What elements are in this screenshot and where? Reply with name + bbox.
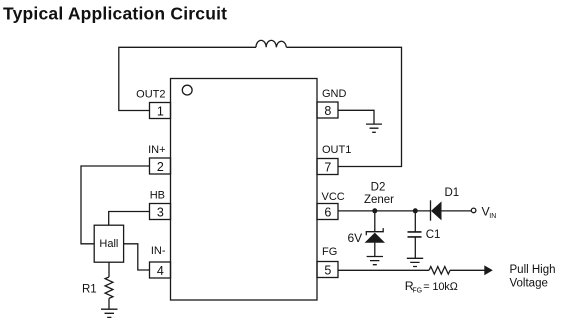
svg-text:HB: HB — [150, 190, 165, 202]
svg-text:FG: FG — [322, 246, 337, 258]
svg-text:OUT2: OUT2 — [136, 89, 165, 101]
svg-text:R1: R1 — [82, 283, 97, 295]
svg-text:2: 2 — [157, 160, 164, 174]
svg-text:1: 1 — [157, 104, 164, 118]
svg-text:Zener: Zener — [364, 194, 394, 206]
svg-text:5: 5 — [324, 263, 331, 277]
svg-text:Typical Application Circuit: Typical Application Circuit — [3, 4, 227, 24]
svg-text:4: 4 — [157, 264, 164, 278]
svg-text:C1: C1 — [426, 229, 441, 241]
svg-text:IN: IN — [489, 213, 496, 220]
svg-text:FG: FG — [412, 287, 422, 294]
svg-text:OUT1: OUT1 — [322, 144, 351, 156]
svg-text:Hall: Hall — [99, 238, 118, 250]
svg-text:Pull High: Pull High — [510, 264, 556, 276]
svg-text:Voltage: Voltage — [510, 277, 548, 289]
svg-text:GND: GND — [322, 88, 347, 100]
svg-text:7: 7 — [324, 160, 331, 174]
svg-text:VCC: VCC — [322, 191, 345, 203]
svg-text:= 10kΩ: = 10kΩ — [423, 281, 458, 293]
svg-text:8: 8 — [324, 104, 331, 118]
svg-text:6V: 6V — [348, 231, 363, 245]
svg-text:D2: D2 — [371, 182, 386, 194]
svg-text:D1: D1 — [445, 187, 460, 199]
svg-text:IN-: IN- — [151, 245, 166, 257]
svg-text:IN+: IN+ — [148, 144, 165, 156]
svg-text:6: 6 — [324, 205, 331, 219]
svg-text:3: 3 — [157, 205, 164, 219]
